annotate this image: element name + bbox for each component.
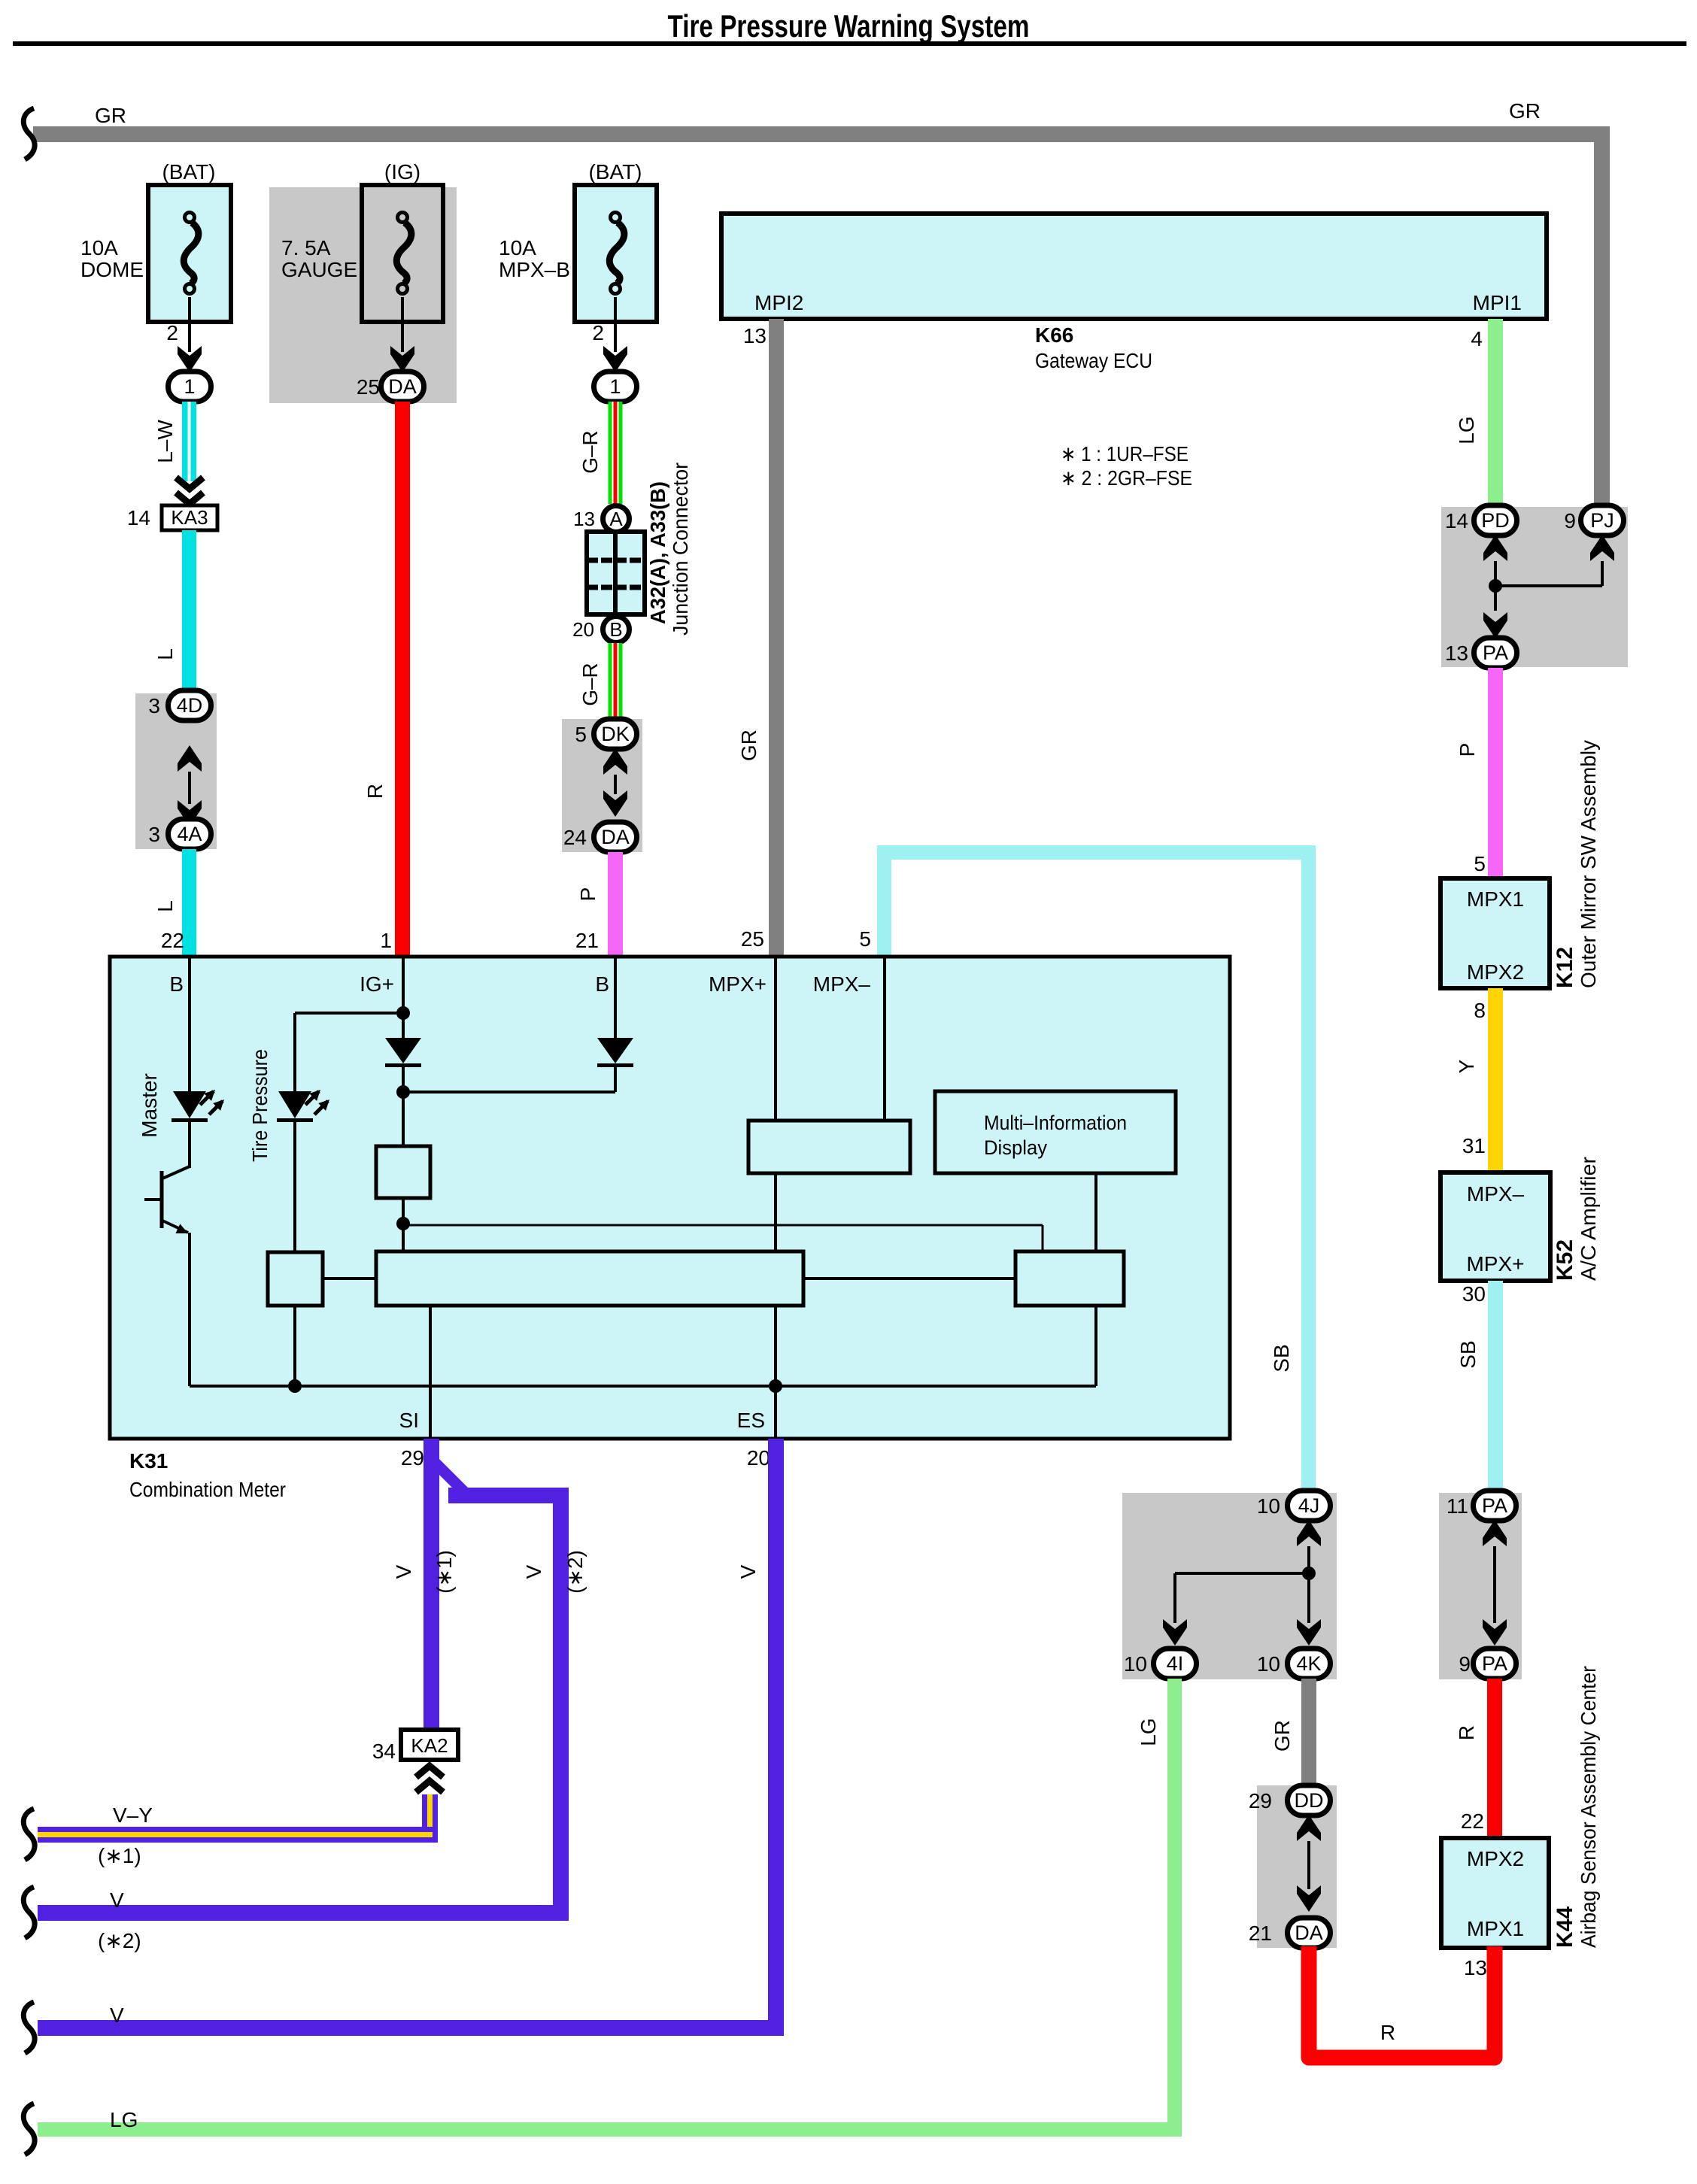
svg-text:4J: 4J [1298, 1494, 1320, 1517]
svg-text:10A: 10A [80, 236, 118, 259]
svg-text:9: 9 [1459, 1652, 1471, 1676]
svg-text:2: 2 [166, 321, 178, 344]
svg-text:3: 3 [148, 823, 160, 846]
svg-text:MPX–: MPX– [813, 972, 871, 996]
svg-text:Y: Y [1455, 1059, 1478, 1073]
svg-text:20: 20 [572, 618, 594, 641]
svg-text:KA2: KA2 [411, 1734, 448, 1757]
svg-text:Tire Pressure Warning System: Tire Pressure Warning System [668, 8, 1030, 44]
svg-text:Master: Master [138, 1073, 161, 1138]
svg-text:(BAT): (BAT) [588, 160, 642, 184]
svg-text:13: 13 [743, 324, 767, 347]
svg-text:20: 20 [747, 1446, 770, 1470]
svg-text:MPX2: MPX2 [1467, 960, 1524, 984]
svg-text:GR: GR [737, 730, 760, 761]
svg-text:SB: SB [1270, 1344, 1293, 1372]
svg-text:V: V [110, 2004, 124, 2027]
svg-text:K52: K52 [1553, 1239, 1577, 1281]
svg-text:PA: PA [1482, 1652, 1507, 1675]
svg-text:G–R: G–R [578, 663, 602, 706]
svg-text:G–R: G–R [578, 430, 602, 474]
svg-text:11: 11 [1447, 1494, 1468, 1518]
svg-text:R: R [1380, 2021, 1395, 2044]
svg-text:MPX+: MPX+ [709, 972, 767, 996]
svg-text:24: 24 [563, 826, 587, 849]
svg-text:DA: DA [601, 826, 630, 848]
svg-text:5: 5 [859, 927, 871, 951]
svg-text:DA: DA [1295, 1922, 1323, 1944]
svg-text:K31: K31 [129, 1449, 168, 1473]
svg-text:25: 25 [357, 375, 380, 399]
svg-text:K66: K66 [1035, 323, 1073, 347]
svg-text:4I: 4I [1167, 1652, 1184, 1675]
svg-text:21: 21 [575, 929, 599, 952]
svg-text:A/C Amplifier: A/C Amplifier [1577, 1157, 1600, 1281]
svg-text:4D: 4D [177, 694, 203, 717]
svg-text:7. 5A: 7. 5A [281, 236, 331, 259]
svg-text:DOME: DOME [80, 258, 144, 281]
svg-text:1: 1 [380, 929, 392, 952]
svg-text:4K: 4K [1296, 1652, 1321, 1675]
svg-text:34: 34 [372, 1740, 396, 1763]
svg-text:10: 10 [1124, 1652, 1147, 1676]
svg-text:10: 10 [1257, 1652, 1280, 1676]
svg-text:∗ 1 : 1UR–FSE: ∗ 1 : 1UR–FSE [1061, 442, 1189, 466]
svg-text:DK: DK [601, 723, 630, 745]
svg-text:LG: LG [110, 2108, 138, 2131]
svg-text:5: 5 [1474, 852, 1486, 875]
svg-text:Junction Connector: Junction Connector [669, 463, 692, 635]
svg-text:(∗2): (∗2) [98, 1929, 141, 1952]
svg-text:K12: K12 [1553, 947, 1577, 988]
svg-text:(∗2): (∗2) [563, 1550, 587, 1594]
svg-text:L–W: L–W [153, 420, 177, 463]
svg-text:MPX–: MPX– [1467, 1182, 1525, 1206]
svg-text:Outer Mirror SW Assembly: Outer Mirror SW Assembly [1577, 740, 1600, 988]
svg-text:30: 30 [1462, 1282, 1486, 1306]
svg-text:4A: 4A [177, 823, 202, 845]
svg-text:2: 2 [592, 321, 604, 344]
svg-text:21: 21 [1249, 1922, 1272, 1945]
svg-text:KA3: KA3 [171, 506, 208, 529]
svg-text:V: V [110, 1888, 124, 1912]
svg-text:V: V [392, 1564, 415, 1579]
svg-text:9: 9 [1564, 509, 1576, 532]
svg-text:MPI2: MPI2 [754, 291, 803, 314]
svg-text:K44: K44 [1553, 1906, 1577, 1948]
svg-text:8: 8 [1474, 999, 1486, 1022]
svg-text:PD: PD [1481, 509, 1510, 532]
svg-text:14: 14 [127, 506, 150, 529]
svg-text:GR: GR [1509, 99, 1541, 123]
svg-text:13: 13 [1464, 1956, 1487, 1979]
svg-text:P: P [1456, 743, 1479, 757]
svg-text:PA: PA [1483, 642, 1508, 664]
svg-text:5: 5 [575, 723, 587, 746]
svg-text:1: 1 [609, 375, 621, 398]
svg-text:L: L [153, 648, 177, 660]
svg-text:PJ: PJ [1590, 509, 1614, 532]
svg-text:10: 10 [1257, 1494, 1280, 1518]
svg-text:P: P [576, 887, 600, 902]
svg-text:Display: Display [984, 1136, 1047, 1159]
svg-text:22: 22 [161, 929, 184, 952]
svg-text:1: 1 [184, 375, 195, 398]
svg-text:MPX+: MPX+ [1466, 1252, 1524, 1276]
svg-text:29: 29 [401, 1446, 424, 1470]
svg-text:(IG): (IG) [384, 160, 420, 184]
svg-text:ES: ES [737, 1409, 765, 1432]
svg-text:SB: SB [1456, 1340, 1480, 1368]
svg-text:DD: DD [1295, 1789, 1324, 1812]
svg-text:GR: GR [1270, 1720, 1294, 1752]
svg-text:Airbag Sensor Assembly Center: Airbag Sensor Assembly Center [1577, 1666, 1600, 1948]
svg-text:LG: LG [1455, 416, 1478, 444]
svg-text:PA: PA [1482, 1494, 1507, 1517]
svg-text:A32(A), A33(B): A32(A), A33(B) [646, 481, 669, 624]
svg-text:A: A [609, 508, 623, 530]
svg-text:GAUGE: GAUGE [281, 258, 357, 281]
svg-text:B: B [169, 972, 184, 996]
svg-text:V: V [736, 1564, 760, 1579]
svg-text:Combination Meter: Combination Meter [129, 1478, 286, 1501]
svg-text:22: 22 [1461, 1809, 1484, 1833]
svg-text:GR: GR [95, 104, 126, 127]
svg-text:(BAT): (BAT) [162, 160, 215, 184]
svg-text:IG+: IG+ [360, 972, 394, 996]
svg-text:MPX1: MPX1 [1467, 887, 1524, 911]
svg-text:L: L [153, 900, 177, 912]
svg-text:Tire Pressure: Tire Pressure [248, 1049, 272, 1162]
svg-text:(∗1): (∗1) [98, 1844, 141, 1867]
svg-text:(∗1): (∗1) [433, 1550, 456, 1594]
svg-text:MPI1: MPI1 [1473, 291, 1522, 314]
svg-text:B: B [609, 618, 622, 641]
svg-text:Gateway ECU: Gateway ECU [1035, 349, 1152, 372]
svg-text:31: 31 [1462, 1134, 1486, 1157]
svg-text:LG: LG [1137, 1718, 1160, 1746]
svg-text:13: 13 [1445, 642, 1468, 665]
svg-text:13: 13 [573, 508, 595, 530]
svg-text:25: 25 [741, 927, 764, 951]
svg-text:29: 29 [1249, 1789, 1272, 1812]
svg-text:V: V [522, 1564, 545, 1579]
svg-text:Multi–Information: Multi–Information [984, 1112, 1127, 1134]
svg-text:14: 14 [1445, 509, 1468, 532]
svg-text:SI: SI [399, 1409, 419, 1432]
svg-text:R: R [1455, 1725, 1478, 1740]
svg-text:MPX2: MPX2 [1467, 1847, 1524, 1870]
svg-text:10A: 10A [499, 236, 536, 259]
svg-text:∗ 2 : 2GR–FSE: ∗ 2 : 2GR–FSE [1061, 466, 1192, 490]
svg-text:R: R [363, 784, 387, 799]
svg-text:MPX1: MPX1 [1467, 1917, 1524, 1940]
svg-text:B: B [595, 972, 609, 996]
svg-text:DA: DA [388, 375, 417, 398]
svg-text:3: 3 [148, 694, 160, 717]
svg-text:MPX–B: MPX–B [499, 258, 570, 281]
svg-text:V–Y: V–Y [113, 1803, 153, 1827]
svg-text:4: 4 [1471, 327, 1483, 350]
